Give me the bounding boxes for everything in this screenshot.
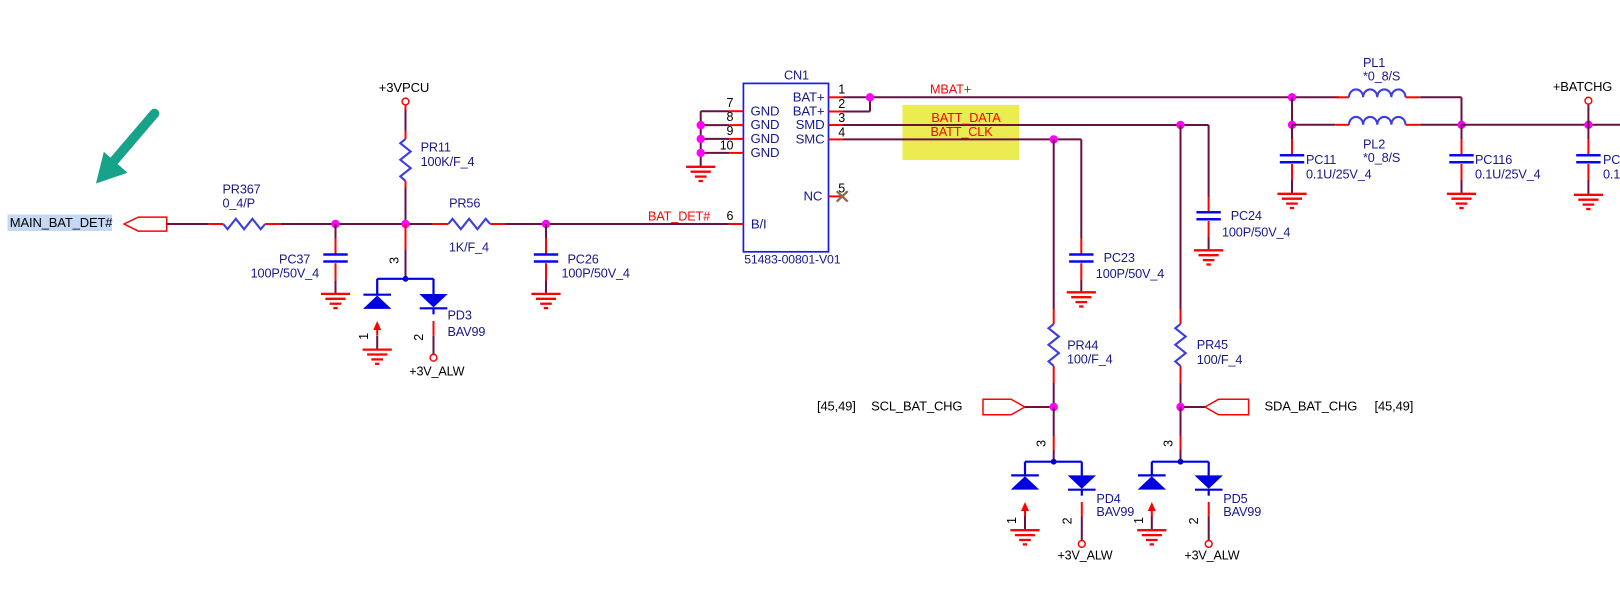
- junction MBAT+/pin2: [866, 93, 874, 101]
- svg-text:+BATCHG: +BATCHG: [1553, 79, 1612, 94]
- no-connect X on pin 5: [837, 191, 848, 201]
- resistor PR11: [400, 139, 410, 181]
- junction lower rail PC11: [1288, 121, 1296, 129]
- node junction PC26: [542, 220, 550, 228]
- svg-text:PC26: PC26: [568, 253, 599, 267]
- inductor PL1: [1335, 96, 1349, 98]
- inductor PL2: [1349, 117, 1405, 125]
- capacitor PC37: [335, 224, 337, 238]
- svg-text:100P/50V_4: 100P/50V_4: [562, 267, 630, 281]
- wire lower rail to +BATCHG: [1462, 124, 1620, 126]
- CN1 left GND pins leads: [729, 110, 743, 112]
- svg-text:BAT_DET#: BAT_DET#: [648, 210, 710, 224]
- wire BATT_CLK net: [843, 138, 1081, 140]
- svg-text:SMD: SMD: [796, 117, 825, 132]
- resistor PR45: [1175, 324, 1185, 366]
- wire SCL to PD4: [1053, 407, 1055, 436]
- junction MBAT+/PL1: [1288, 93, 1296, 101]
- svg-text:1: 1: [1132, 517, 1146, 524]
- ground PC23: [1067, 292, 1096, 306]
- wire +3VPCU to PR11: [405, 105, 407, 110]
- svg-text:PC116: PC116: [1475, 153, 1512, 167]
- net highlight MAIN_BAT_DET# selection: [8, 215, 113, 232]
- svg-text:MBAT+: MBAT+: [930, 82, 971, 96]
- svg-text:6: 6: [726, 209, 733, 223]
- svg-text:0_4/P: 0_4/P: [223, 197, 255, 211]
- svg-text:PC11: PC11: [1306, 153, 1336, 167]
- wire BATT_DATA corner to PC24: [1208, 125, 1210, 197]
- wire to PD3 pin 3: [405, 224, 407, 250]
- svg-text:100P/50V_4: 100P/50V_4: [1222, 226, 1290, 240]
- power +BATCHG: [1587, 105, 1589, 125]
- svg-text:PD3: PD3: [448, 309, 472, 323]
- wire SCL port stub: [1025, 406, 1050, 408]
- junction SCL_BAT_CHG: [1050, 403, 1058, 411]
- svg-text:[45,49]: [45,49]: [1375, 398, 1414, 413]
- svg-text:1: 1: [1005, 517, 1019, 524]
- resistor PR56: [432, 223, 448, 225]
- svg-text:1: 1: [357, 333, 371, 340]
- svg-text:1: 1: [838, 83, 845, 97]
- svg-text:0.1U/25V_4: 0.1U/25V_4: [1306, 168, 1372, 182]
- svg-text:PR44: PR44: [1067, 339, 1098, 353]
- svg-text:0.1U/25V_4: 0.1U/25V_4: [1475, 168, 1541, 182]
- svg-text:PD4: PD4: [1096, 492, 1120, 506]
- diode PD3 pin1 (left, BAV99): [376, 279, 378, 295]
- highlight BATT_DATA/BATT_CLK: [902, 105, 1019, 160]
- resistor PR44: [1049, 324, 1059, 366]
- wire: [505, 223, 729, 225]
- CN1 right pin leads: [829, 96, 844, 98]
- junction GND pin9: [697, 135, 705, 143]
- svg-text:PC23: PC23: [1104, 251, 1135, 265]
- svg-text:0.1: 0.1: [1603, 168, 1620, 182]
- svg-text:PD5: PD5: [1223, 492, 1247, 506]
- capacitor PC116: [1461, 125, 1463, 139]
- svg-text:GND: GND: [751, 117, 780, 132]
- port MAIN_BAT_DET#: [124, 217, 167, 231]
- diode PD3 pin2 (right, BAV99): [432, 279, 434, 294]
- ground PD5 pin1: [1137, 530, 1166, 544]
- svg-text:2: 2: [412, 334, 426, 341]
- svg-text:3: 3: [1162, 440, 1176, 447]
- power +3V_ALW at PD3: [430, 354, 437, 361]
- svg-text:100K/F_4: 100K/F_4: [421, 155, 475, 169]
- power +3V_ALW at PD5: [1205, 541, 1212, 548]
- junction BATT_DATA / PR45: [1176, 121, 1184, 129]
- junction GND pin10: [697, 149, 705, 157]
- diode pair PD5 rail: [1152, 461, 1209, 463]
- svg-text:51483-00801-V01: 51483-00801-V01: [744, 252, 841, 266]
- diode PD5 pin1 (left, BAV99): [1151, 462, 1153, 476]
- svg-text:GND: GND: [751, 103, 780, 118]
- ground CN1: [686, 167, 715, 181]
- junction GND pin8: [697, 121, 705, 129]
- ground PC37: [321, 294, 350, 308]
- svg-text:SDA_BAT_CHG: SDA_BAT_CHG: [1265, 398, 1358, 413]
- diode PD5 pin2 (right, BAV99): [1208, 462, 1210, 476]
- diode pair PD4 rail: [1025, 461, 1082, 463]
- wire MBAT+ down to lower rail: [1291, 97, 1293, 125]
- svg-text:NC: NC: [804, 189, 823, 204]
- svg-text:*0_8/S: *0_8/S: [1363, 151, 1400, 165]
- wire BATT_CLK corner to PC23: [1080, 139, 1082, 224]
- ground PC26: [531, 294, 560, 308]
- wire MBAT+ net: [843, 96, 1339, 98]
- svg-text:MAIN_BAT_DET#: MAIN_BAT_DET#: [10, 215, 113, 230]
- junction BATT_CLK / PR44: [1050, 135, 1058, 143]
- svg-text:+3VPCU: +3VPCU: [379, 80, 429, 95]
- ground PD3 pin1: [363, 350, 392, 364]
- svg-text:GND: GND: [751, 145, 780, 160]
- svg-text:100P/50V_4: 100P/50V_4: [251, 267, 319, 281]
- svg-text:10: 10: [720, 139, 734, 153]
- port SCL_BAT_CHG: [983, 399, 1025, 415]
- node junction PC37: [331, 220, 339, 228]
- junction SDA_BAT_CHG: [1176, 403, 1184, 411]
- svg-text:4: 4: [838, 125, 845, 139]
- svg-text:BAT+: BAT+: [793, 89, 825, 104]
- wire lower rail: [1292, 124, 1335, 126]
- ground PC24: [1194, 250, 1223, 264]
- svg-text:*0_8/S: *0_8/S: [1363, 69, 1400, 83]
- svg-text:2: 2: [1187, 517, 1201, 524]
- pin 6 lead B/I: [729, 223, 744, 225]
- svg-text:PR11: PR11: [421, 141, 451, 155]
- svg-text:2: 2: [1060, 517, 1074, 524]
- svg-text:3: 3: [838, 111, 845, 125]
- svg-text:BAV99: BAV99: [1223, 505, 1261, 519]
- wire pin2 to MBAT+: [843, 111, 870, 113]
- port SDA_BAT_CHG: [1205, 399, 1249, 415]
- svg-text:3: 3: [387, 257, 401, 264]
- svg-text:1K/F_4: 1K/F_4: [449, 240, 489, 254]
- svg-text:100P/50V_4: 100P/50V_4: [1096, 267, 1164, 281]
- capacitor PC23: [1080, 224, 1082, 238]
- wire SDA port stub: [1184, 406, 1205, 408]
- svg-text:BATT_DATA: BATT_DATA: [931, 111, 1001, 125]
- ground PC116: [1447, 194, 1476, 208]
- svg-text:+3V_ALW: +3V_ALW: [1057, 549, 1112, 563]
- capacitor PC24: [1208, 197, 1210, 212]
- svg-text:PL2: PL2: [1363, 138, 1385, 152]
- svg-text:PL1: PL1: [1363, 56, 1385, 70]
- svg-text:+3V_ALW: +3V_ALW: [1184, 549, 1239, 563]
- svg-text:+3V_ALW: +3V_ALW: [409, 364, 464, 378]
- svg-text:PR45: PR45: [1197, 338, 1228, 352]
- junction +BATCHG: [1584, 121, 1592, 129]
- svg-text:BATT_CLK: BATT_CLK: [930, 125, 993, 139]
- svg-text:PR56: PR56: [449, 197, 480, 211]
- capacitor PC (right edge): [1587, 125, 1589, 139]
- wire SDA to PD5: [1180, 407, 1182, 436]
- svg-text:8: 8: [726, 110, 733, 124]
- junction PC116: [1457, 121, 1465, 129]
- svg-text:100/F_4: 100/F_4: [1067, 353, 1113, 367]
- svg-text:BAV99: BAV99: [1096, 505, 1134, 519]
- wire BATT_DATA net: [843, 124, 1209, 126]
- svg-text:PC37: PC37: [279, 253, 310, 267]
- wire SCL branch: [1053, 139, 1055, 309]
- svg-text:7: 7: [726, 96, 733, 110]
- ground PD4 pin1: [1010, 530, 1039, 544]
- node junction PR11/PD3: [401, 220, 409, 228]
- svg-text:B/I: B/I: [751, 217, 767, 232]
- diode pair PD3 rail: [377, 278, 433, 280]
- svg-text:SCL_BAT_CHG: SCL_BAT_CHG: [871, 398, 962, 413]
- svg-text:3: 3: [1035, 440, 1049, 447]
- wire SDA branch: [1180, 125, 1182, 309]
- wires CN1 GND bus: [701, 110, 730, 112]
- svg-text:SMC: SMC: [796, 132, 825, 147]
- svg-text:CN1: CN1: [784, 69, 809, 83]
- svg-text:PR367: PR367: [223, 183, 261, 197]
- wire: [281, 223, 433, 225]
- green annotation arrow: [96, 114, 155, 184]
- ground PC11: [1277, 194, 1306, 208]
- wire main BAT_DET# net: [167, 223, 208, 225]
- power +3VPCU: [402, 98, 409, 105]
- capacitor PC11: [1291, 125, 1293, 139]
- power +3V_ALW at PD4: [1078, 541, 1085, 548]
- connector CN1 body: [743, 83, 828, 251]
- svg-text:GND: GND: [751, 131, 780, 146]
- svg-text:BAV99: BAV99: [448, 325, 486, 339]
- capacitor PC26: [545, 224, 547, 238]
- svg-text:9: 9: [726, 124, 733, 138]
- resistor PR367: [223, 219, 265, 229]
- pin 5 lead NC: [829, 195, 842, 197]
- svg-text:PC: PC: [1603, 153, 1620, 167]
- svg-text:[45,49]: [45,49]: [817, 398, 856, 413]
- svg-text:2: 2: [838, 97, 845, 111]
- svg-text:100/F_4: 100/F_4: [1197, 353, 1243, 367]
- ground PC right edge: [1574, 195, 1603, 209]
- svg-text:PC24: PC24: [1231, 209, 1262, 223]
- diode PD4 pin1 (left, BAV99): [1024, 462, 1026, 476]
- diode PD4 pin2 (right, BAV99): [1081, 462, 1083, 476]
